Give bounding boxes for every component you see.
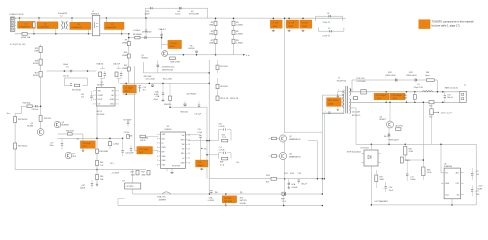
connector J2 (460, 91, 466, 102)
diode D3 (145, 36, 147, 39)
svg-text:S4-L0A: S4-L0A (240, 202, 247, 205)
rc block C15A R04 (218, 130, 220, 141)
svg-text:S2M: S2M (129, 135, 133, 137)
svg-text:TÜV/EFG components in this mat: TÜV/EFG components in this material (432, 20, 474, 23)
svg-text:C6A 4n7: C6A 4n7 (159, 28, 166, 31)
bias row to fb (170, 106, 207, 108)
svg-text:0.47µF(X2): 0.47µF(X2) (39, 26, 50, 28)
svg-text:1MΩ: 1MΩ (209, 25, 214, 27)
svg-text:16 V: 16 V (139, 152, 144, 154)
svg-text:1MΩ: 1MΩ (209, 34, 214, 36)
svg-text:Q3: Q3 (289, 154, 292, 156)
svg-text:1MΩ: 1MΩ (142, 174, 146, 176)
svg-text:EXN-?SG: EXN-?SG (158, 197, 166, 199)
svg-text:Tab: Tab (456, 194, 459, 196)
svg-text:R23 2kΩ: R23 2kΩ (220, 86, 228, 88)
wire sense rail3 (356, 143, 476, 145)
resistor chain R3 R5 R7 (215, 18, 217, 55)
wire right edge vertical (475, 144, 477, 205)
svg-text:4Ω 0.2: 4Ω 0.2 (97, 111, 102, 113)
svg-text:SIC40: SIC40 (33, 63, 38, 65)
svg-text:LNK564: LNK564 (165, 129, 172, 131)
svg-text:R30 604R: R30 604R (99, 151, 108, 153)
svg-text:C1?: C1? (122, 180, 125, 182)
capacitor C13 (138, 86, 141, 92)
svg-text:200nF: 200nF (80, 188, 86, 190)
fuse RF1 (282, 192, 286, 195)
capacitor C16 orange (390, 93, 405, 100)
svg-text:OUT: OUT (456, 183, 460, 185)
svg-text:C8 1nF: C8 1nF (287, 23, 295, 25)
svg-text:Q2: Q2 (289, 136, 292, 138)
rc pair R2A C2A (99, 72, 102, 77)
resistor R34B (396, 128, 402, 131)
svg-text:+: + (382, 187, 383, 189)
svg-text:C16 330µF: C16 330µF (391, 95, 402, 97)
wire bottom bus (133, 193, 323, 195)
rc pair R2C C2C (115, 72, 118, 77)
svg-text:2n2: 2n2 (81, 97, 84, 99)
svg-text:R38 1k: R38 1k (405, 160, 411, 162)
svg-text:1.9MΩ: 1.9MΩ (122, 68, 128, 70)
capacitor C6 (160, 33, 162, 35)
mosfet Q2A (279, 135, 286, 142)
capacitor C45 (35, 105, 37, 107)
svg-text:D6: D6 (190, 45, 192, 47)
svg-text:R04: R04 (222, 134, 225, 136)
svg-text:C?8 1nF: C?8 1nF (124, 132, 130, 134)
wire bottom secondary rail (371, 204, 476, 206)
wire sec side vertical 2 (323, 114, 325, 179)
svg-text:11: 11 (188, 158, 190, 160)
svg-text:56kΩ: 56kΩ (380, 179, 385, 181)
svg-text:Vcc: Vcc (7, 113, 10, 115)
svg-text:R36: R36 (427, 169, 430, 171)
wire left chain (40, 45, 42, 129)
svg-text:5W7-5PL: 5W7-5PL (240, 200, 248, 202)
svg-text:1.25MΩ: 1.25MΩ (236, 43, 243, 45)
svg-text:10 V: 10 V (377, 98, 382, 100)
wire L rail right part (146, 17, 346, 19)
capacitor C26 (91, 183, 93, 185)
ic U5 regulator (444, 168, 460, 199)
transformer T1 (345, 86, 347, 114)
svg-text:0.68µF(X2): 0.68µF(X2) (71, 27, 82, 29)
svg-text:1.9M: 1.9M (34, 50, 39, 52)
node Vcc arrow (201, 148, 203, 149)
wire gate bias vertical (308, 140, 317, 142)
diode D9 (395, 79, 397, 82)
svg-text:200A: 200A (328, 103, 333, 106)
resistor R5A (68, 133, 73, 135)
wire comp rail 1 (187, 140, 218, 142)
diode D10 (415, 79, 417, 82)
wire U5 top (440, 144, 442, 173)
wire clamp to drain (285, 131, 323, 133)
svg-text:U3: U3 (167, 126, 169, 128)
diode D4 (180, 7, 182, 10)
capacitor C11 (198, 104, 200, 106)
svg-text:C7 10µF: C7 10µF (125, 87, 134, 89)
svg-text:master: master (175, 13, 181, 16)
wire under C7 (123, 93, 137, 95)
jumper JP1 (132, 170, 134, 184)
resistor ZW1 (271, 177, 277, 180)
fuse L5 on output rail (361, 90, 367, 94)
resistor chain R4 R6 R8B (233, 18, 235, 55)
wire output return rail (350, 101, 459, 103)
svg-text:LL4148: LL4148 (188, 48, 194, 50)
resistor R40 (27, 105, 32, 108)
svg-text:Vsn: Vsn (445, 173, 448, 175)
resistor R16 (39, 59, 42, 65)
svg-text:R8 160kΩ: R8 160kΩ (133, 34, 142, 36)
svg-text:2.2nF Y1: 2.2nF Y1 (323, 22, 331, 24)
svg-text:C14 1µF: C14 1µF (83, 143, 92, 145)
svg-text:OSb: OSb (162, 165, 165, 167)
svg-text:C20: C20 (389, 187, 392, 189)
svg-text:250V: 250V (288, 26, 293, 28)
svg-text:1-LP-4b: 1-LP-4b (219, 126, 225, 128)
rc block C14A R4B (218, 153, 220, 159)
svg-text:1-LP-4b: 1-LP-4b (219, 149, 225, 151)
svg-text:R2B 4.75M: R2B 4.75M (170, 62, 180, 64)
svg-text:REV10-6DH: REV10-6DH (407, 75, 418, 77)
svg-text:1: 1 (12, 19, 13, 21)
resistor R29 (272, 155, 277, 158)
svg-text:C52 1n: C52 1n (63, 76, 69, 78)
fuse F1 (22, 32, 27, 35)
svg-text:DRL: DRL (162, 138, 165, 140)
svg-text:C5 1µF: C5 1µF (170, 43, 178, 45)
diode D13 right of T1 (354, 97, 358, 100)
svg-text:R2A 30k: R2A 30k (97, 63, 104, 66)
svg-text:C15 330µF: C15 330µF (376, 95, 387, 97)
svg-text:10 V: 10 V (393, 98, 398, 100)
svg-text:R24: R24 (284, 173, 287, 175)
transistor Q4 (387, 121, 394, 128)
svg-text:LL4548: LL4548 (208, 200, 214, 202)
svg-text:R35: R35 (409, 148, 412, 150)
svg-text:76.8k: 76.8k (409, 151, 413, 153)
svg-text:PW?: PW? (281, 198, 285, 200)
svg-text:C4? +: C4? + (110, 163, 115, 165)
optocoupler U2 (364, 150, 378, 166)
svg-text:25 V: 25 V (83, 146, 88, 148)
capacitor C3 (70, 22, 91, 29)
resistor R15 (39, 47, 42, 53)
svg-text:100 µF: 100 µF (447, 97, 454, 99)
resistor R36 (422, 167, 425, 176)
wire left gnd bus (15, 169, 146, 171)
diode D5 (152, 83, 154, 85)
svg-text:BC847T: BC847T (380, 119, 388, 121)
svg-text:REV10-6DH: REV10-6DH (389, 140, 400, 142)
svg-text:R44: R44 (100, 162, 103, 164)
svg-text:U6: U6 (444, 163, 446, 165)
svg-text:R25 4.7Ω: R25 4.7Ω (220, 98, 229, 100)
resistor R23 (216, 84, 219, 88)
svg-text:+16?: +16? (81, 185, 85, 187)
svg-text:A4 w/Pbe: A4 w/Pbe (396, 124, 403, 127)
svg-text:STVE II A-D4004: STVE II A-D4004 (347, 151, 361, 154)
svg-text:1.25MΩ: 1.25MΩ (236, 25, 243, 27)
svg-text:400 V: 400 V (125, 91, 131, 93)
svg-text:E-4: E-4 (237, 162, 240, 164)
svg-text:4n7: 4n7 (143, 90, 146, 92)
resistor R2B (170, 57, 176, 60)
capacitor C38 (127, 121, 129, 123)
capacitor C44 (121, 150, 123, 152)
svg-text:SIC40: SIC40 (33, 75, 38, 77)
svg-text:PIC 8T DIP: PIC 8T DIP (172, 166, 180, 168)
svg-text:R46: R46 (100, 176, 103, 178)
svg-text:1MΩ: 1MΩ (209, 43, 214, 45)
capacitor C7 orange (123, 85, 137, 93)
wire feedback drop (134, 66, 136, 150)
wire Vcc mid rail (58, 137, 123, 139)
wire vertical startup (128, 34, 130, 84)
svg-text:C7 1nF: C7 1nF (272, 23, 280, 25)
svg-text:R11: R11 (124, 65, 127, 67)
svg-text:10.0k: 10.0k (427, 172, 431, 174)
svg-text:1Ω 250nF: 1Ω 250nF (97, 114, 106, 116)
svg-text:R20 12k: R20 12k (44, 118, 51, 120)
resistor R17 (39, 71, 42, 77)
wire enclosure left (142, 62, 144, 73)
svg-text:250V: 250V (273, 26, 278, 28)
zener Z1 (157, 65, 160, 67)
capacitor C39 (127, 135, 130, 139)
svg-text:0.47µF(X2): 0.47µF(X2) (19, 26, 30, 28)
capacitor C24 (210, 190, 212, 192)
svg-text:C-F 5W7S: C-F 5W7S (126, 186, 135, 188)
wire U5 gnd (451, 199, 453, 205)
svg-text:Z1 BZV55-C15: Z1 BZV55-C15 (162, 67, 175, 69)
svg-text:1.25MΩ: 1.25MΩ (236, 34, 243, 36)
capacitor C33 (130, 148, 132, 150)
svg-text:RASS 1.5/3-5.08: RASS 1.5/3-5.08 (445, 87, 458, 90)
svg-text:R6?: R6? (142, 172, 145, 174)
svg-text:Vout: Vout (445, 193, 449, 196)
wire bottom-most bus (118, 205, 322, 207)
resistor R50 (75, 84, 80, 86)
svg-text:SPL5S4: SPL5S4 (224, 201, 232, 203)
svg-text:Vcc: Vcc (76, 139, 79, 141)
capacitor C17 (298, 179, 300, 181)
svg-text:MMBF0N100: MMBF0N100 (289, 156, 300, 158)
capacitor C7Y orange (270, 20, 282, 28)
svg-text:CMS04-9: CMS04-9 (91, 13, 99, 15)
mosfet Q2B (279, 152, 286, 159)
svg-text:0.9mH(X2): 0.9mH(X2) (58, 13, 68, 15)
resistor R32 (430, 109, 433, 115)
svg-text:100nF: 100nF (63, 64, 69, 66)
capacitor C9Y orange (300, 20, 312, 28)
wire U1 down (96, 106, 98, 183)
inductor L6 (422, 91, 432, 92)
svg-text:D6 LL4148: D6 LL4148 (163, 79, 172, 81)
svg-text:ZW1: ZW1 (266, 175, 270, 177)
node Vin (234, 54, 244, 56)
svg-text:0.5Ω: 0.5Ω (290, 173, 294, 175)
capacitor C9 bracket (318, 30, 344, 32)
svg-text:C12 10µF: C12 10µF (139, 149, 149, 151)
svg-text:COMP: COMP (98, 95, 104, 97)
wire diode row (352, 79, 437, 81)
svg-text:VTTROUHS: VTTROUHS (189, 14, 200, 16)
svg-text:4.7 Ω (2.5 %) 1 kV: 4.7 Ω (2.5 %) 1 kV (10, 44, 26, 46)
transistor Q6 (65, 152, 72, 159)
svg-text:BC846: BC846 (27, 126, 33, 128)
wire T1 aux down (350, 107, 356, 109)
svg-text:0.68µF(X2): 0.68µF(X2) (106, 27, 117, 29)
svg-text:GND: GND (110, 99, 115, 101)
svg-text:2N7002: 2N7002 (141, 57, 148, 59)
capacitor C8Y orange (286, 20, 299, 28)
capacitor C20 (385, 186, 387, 188)
svg-text:D8 5W7: D8 5W7 (224, 198, 232, 200)
svg-text:C21: C21 (410, 176, 413, 178)
resistor R44 (96, 161, 99, 166)
capacitor C1A (162, 83, 164, 93)
wire sec side vertical (321, 113, 323, 194)
clamp VR1 orange (327, 98, 342, 107)
svg-text:R10: R10 (124, 52, 127, 54)
wire startup branch (129, 37, 162, 39)
svg-text:1kΩ W: 1kΩ W (140, 140, 146, 142)
node +8V (433, 112, 439, 113)
resistor R30 (96, 149, 99, 153)
resistor R45 (109, 142, 112, 146)
svg-text:1.24kΩ: 1.24kΩ (113, 144, 119, 146)
capacitor C4B (69, 70, 71, 72)
svg-text:T1: T1 (338, 78, 340, 80)
capacitor C19 (444, 95, 446, 97)
resistor R35 (404, 147, 407, 156)
wire snubber loop (146, 7, 208, 9)
svg-text:list (see table 1, page 17): list (see table 1, page 17) (432, 24, 460, 27)
resistor R25 (216, 96, 219, 100)
inductor L1 (92, 15, 99, 36)
legend orange box (419, 20, 430, 29)
svg-text:100n: 100n (50, 145, 54, 147)
resistor R46 (96, 175, 99, 180)
svg-text:R0B 160k: R0B 160k (181, 111, 189, 113)
resistor R11 (127, 67, 130, 71)
svg-text:eT4 D-D4D: eT4 D-D4D (357, 81, 367, 83)
wire R40 row (21, 105, 40, 107)
svg-text:L6: L6 (418, 84, 420, 86)
ferrite FB1 (427, 79, 435, 82)
capacitor C12 orange (137, 147, 153, 155)
capacitor C13B orange (196, 160, 209, 167)
svg-text:250V: 250V (302, 26, 307, 28)
svg-text:1 W: 1 W (100, 165, 103, 167)
wire fb node (405, 159, 423, 161)
zener D12 (388, 134, 390, 135)
svg-text:U5 TSE4E4MLT: U5 TSE4E4MLT (375, 201, 389, 203)
resistor R24 (272, 137, 277, 140)
svg-text:C8: C8 (327, 13, 329, 15)
op-amp U1 (96, 87, 115, 106)
svg-text:Fb: Fb (112, 90, 114, 92)
svg-text:C4 50nF: C4 50nF (133, 30, 141, 32)
resistor R38 (400, 157, 403, 163)
svg-text:R37: R37 (380, 176, 383, 178)
wire enclosure bottom (143, 72, 209, 74)
svg-text:12: 12 (188, 153, 190, 155)
capacitor C2 (37, 22, 58, 29)
svg-text:6.8k: 6.8k (404, 98, 407, 100)
svg-text:070 µF: 070 µF (301, 184, 308, 186)
jumper EXN (162, 192, 171, 194)
capacitor C5A orange (162, 44, 168, 46)
wire HV drop (284, 18, 286, 133)
svg-text:SGM2936: SGM2936 (444, 166, 452, 168)
wire U3 grounds (166, 168, 168, 171)
choke L2 (62, 21, 68, 30)
wire cascode link (284, 142, 286, 152)
svg-text:+8 V ± 1.2 V: +8 V ± 1.2 V (441, 112, 453, 114)
svg-text:R5A 5.6R: R5A 5.6R (66, 129, 74, 132)
svg-text:1.7 Ω: 1.7 Ω (282, 201, 287, 203)
resistor R8 (135, 36, 140, 39)
capacitor C15 orange (374, 93, 389, 100)
wire chain mid vertical (208, 60, 210, 194)
svg-text:R9: R9 (125, 40, 127, 42)
svg-text:2.2nF Y1: 2.2nF Y1 (323, 36, 331, 38)
svg-text:C9 1nF: C9 1nF (301, 23, 309, 25)
svg-text:Vcc: Vcc (204, 149, 207, 151)
capacitor C8 bracket (316, 15, 343, 17)
svg-text:FUSE T1A: FUSE T1A (21, 36, 31, 39)
svg-text:-ve 200nF: -ve 200nF (112, 173, 120, 175)
wire C4B rail (47, 70, 97, 72)
capacitor C4 (145, 29, 147, 31)
svg-text:3: 3 (12, 25, 13, 27)
resistor R37 (375, 175, 378, 182)
wire fb vertical pair (206, 107, 208, 179)
svg-text:1.9MΩ: 1.9MΩ (122, 42, 128, 44)
ic U3 LNK564 (161, 132, 186, 168)
svg-text:D5 LL4148: D5 LL4148 (146, 78, 155, 80)
capacitor clamp (328, 111, 330, 113)
capacitor C1 (18, 21, 36, 28)
svg-text:SE 10-1: SE 10-1 (384, 136, 391, 138)
svg-text:3.3µH 1.7A: 3.3µH 1.7A (414, 86, 424, 89)
wire comp rail 2 (207, 154, 219, 156)
capacitor C5 (104, 22, 124, 29)
diode D8 orange (222, 196, 236, 203)
wire to gate cluster (161, 31, 163, 50)
svg-text:+7.5V: +7.5V (478, 185, 484, 187)
resistor R27 (169, 96, 172, 100)
svg-text:C11 1µF: C11 1µF (195, 114, 201, 116)
svg-text:Rs4: Rs4 (429, 117, 432, 119)
capacitor C22 (471, 173, 473, 175)
svg-text:R50 SIC40: R50 SIC40 (72, 89, 81, 91)
svg-text:C44 4.7nF: C44 4.7nF (125, 153, 134, 155)
svg-text:SW: SW (182, 144, 185, 146)
svg-text:13: 13 (188, 149, 190, 151)
resistor R21 (216, 65, 219, 69)
resistor R33 on rail (429, 101, 434, 104)
mosfet Q1 (162, 51, 168, 57)
wire L rail (15, 17, 146, 19)
clamp enclosure (323, 95, 344, 114)
wire output plus rail (350, 91, 459, 93)
